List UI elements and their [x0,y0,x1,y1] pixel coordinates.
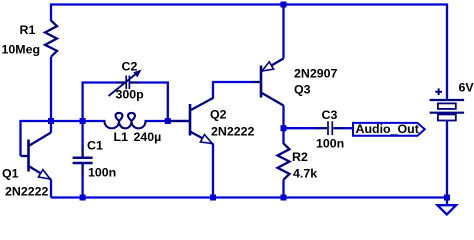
svg-text:6V: 6V [459,81,474,95]
svg-text:C3: C3 [322,108,338,122]
svg-text:300p: 300p [116,88,145,102]
svg-text:100n: 100n [88,166,116,180]
svg-text:R2: R2 [292,150,308,164]
svg-text:2N2907: 2N2907 [294,67,338,81]
svg-text:Audio_Out: Audio_Out [356,122,419,136]
svg-text:240µ: 240µ [134,130,162,144]
svg-text:4.7k: 4.7k [293,167,317,181]
svg-text:Q2: Q2 [210,108,227,122]
svg-text:10Meg: 10Meg [2,43,41,57]
svg-text:L1: L1 [114,130,129,144]
svg-text:100n: 100n [316,137,344,151]
svg-text:Q1: Q1 [2,167,19,181]
svg-text:R1: R1 [20,23,36,37]
svg-text:2N2222: 2N2222 [211,125,255,139]
svg-text:Q3: Q3 [294,83,311,97]
svg-text:C1: C1 [87,139,103,153]
svg-text:2N2222: 2N2222 [5,185,49,199]
svg-text:C2: C2 [122,60,138,74]
